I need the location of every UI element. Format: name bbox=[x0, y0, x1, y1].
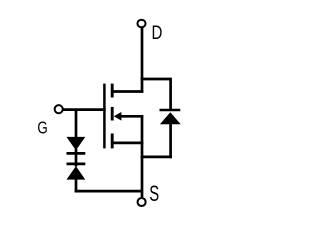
wire: bottom rail to source bus bbox=[75, 190, 142, 193]
wire: link between protection diodes bbox=[75, 149, 78, 167]
MOSFET Q1 channel middle segment (body) bbox=[111, 107, 114, 121]
wire: junction vertical down to protection diodes bbox=[75, 110, 78, 138]
wire: bottom-right horizontal to source bus bbox=[141, 156, 172, 159]
diode D2 (body diode) cathode bar bbox=[160, 109, 181, 112]
MOSFET Q1 channel bottom segment (source) bbox=[111, 134, 114, 149]
wire: source bus vertical down to S terminal bbox=[141, 116, 144, 197]
diode Z2 (gate protection, cathode up) cathode bar bbox=[67, 163, 86, 166]
terminal D circle bbox=[137, 20, 145, 28]
terminal S circle bbox=[138, 198, 146, 206]
wire: body diode vertical (cathode side) bbox=[169, 78, 172, 110]
wire: body diode vertical (anode side) bbox=[169, 124, 172, 158]
diode D2 (body diode) triangle bbox=[160, 112, 181, 124]
diode Z1 cathode bar bbox=[67, 152, 86, 155]
wire: source tap horizontal bbox=[111, 142, 143, 145]
wire: branch to body diode (horizontal) bbox=[141, 78, 171, 81]
wire: protection diode anode down to bottom rail bbox=[75, 179, 78, 193]
terminal G circle bbox=[55, 105, 63, 113]
MOSFET Q1 channel top segment (drain) bbox=[111, 84, 114, 98]
diode Z2 triangle bbox=[67, 166, 86, 180]
wire: drain vertical from D circle down to drain tap bbox=[141, 28, 144, 93]
wire: drain tap horizontal to channel bbox=[111, 90, 143, 93]
svg-text:D: D bbox=[152, 23, 163, 44]
diode Z1 (gate protection, cathode down) triangle bbox=[67, 137, 86, 151]
wire: gate horizontal from G circle to gate bar bbox=[63, 108, 105, 111]
svg-text:S: S bbox=[149, 181, 159, 206]
wire: body tap horizontal to source bus bbox=[121, 115, 144, 118]
MOSFET Q1 body arrow (points left into channel) bbox=[114, 112, 122, 121]
MOSFET Q1 gate bar bbox=[103, 84, 106, 149]
svg-text:G: G bbox=[37, 117, 47, 137]
